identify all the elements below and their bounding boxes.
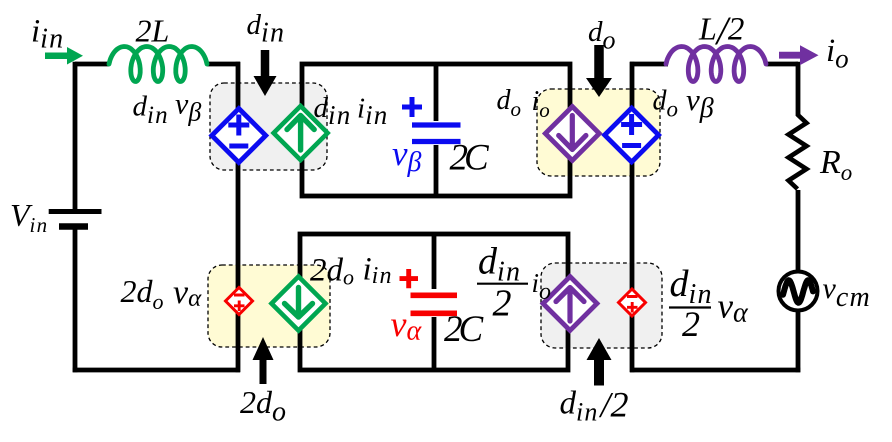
svg-text:2: 2 — [493, 283, 512, 325]
battery Vin — [49, 212, 102, 227]
arrow i_o — [779, 45, 819, 65]
svg-text:/2: /2 — [599, 385, 629, 425]
wire bottom cell box — [300, 234, 568, 370]
shaded region output sources — [537, 89, 660, 176]
inductor L/2 — [666, 47, 766, 82]
arrow d_o — [586, 45, 612, 97]
dep current source d_in*i_in — [274, 106, 328, 160]
dep current source d_o*i_o — [545, 107, 599, 161]
wire right vertical — [796, 62, 801, 373]
wire node-A vertical x=238 — [236, 62, 241, 373]
dep current source (d_in/2)*i_o — [543, 277, 597, 331]
arrow d_in/2 — [587, 338, 612, 386]
resistor Ro — [789, 115, 807, 190]
dep voltage source d_in*v_beta — [212, 109, 266, 163]
shaded region input sources — [210, 83, 327, 170]
dep current source 2d_o*i_in — [272, 277, 326, 331]
svg-text:2C: 2C — [450, 138, 491, 179]
capacitor 2C bottom (v_alpha) — [400, 269, 458, 313]
dep voltage source d_o*v_beta — [605, 108, 659, 162]
capacitor 2C top (v_beta) — [402, 97, 461, 142]
dep voltage source 2d_o*v_alpha — [226, 288, 253, 315]
arrow 2d_o — [253, 337, 274, 384]
wire top-left — [75, 62, 240, 67]
arrow i_in — [45, 47, 83, 65]
svg-text:2C: 2C — [444, 309, 485, 350]
arrow d_in — [254, 50, 277, 96]
wire top-right — [630, 62, 798, 67]
inductor 2L — [109, 47, 207, 82]
wire bottom-right — [630, 368, 800, 373]
dep voltage source (d_in/2)*v_alpha — [619, 289, 646, 316]
wire top capacitor branch — [434, 64, 439, 196]
source vcm circle — [779, 272, 818, 311]
wire top cell box — [302, 64, 570, 196]
shaded region lower-right sources — [541, 263, 662, 348]
svg-text:2L: 2L — [136, 13, 170, 49]
svg-text:L/2: L/2 — [698, 8, 744, 53]
shaded region lower-left sources — [208, 265, 330, 347]
wire bottom-left — [73, 368, 240, 373]
wire bottom capacitor branch — [432, 234, 437, 370]
wire left vertical — [73, 62, 78, 373]
wire node-B vertical x=632 — [630, 62, 635, 373]
svg-text:2: 2 — [682, 304, 700, 344]
